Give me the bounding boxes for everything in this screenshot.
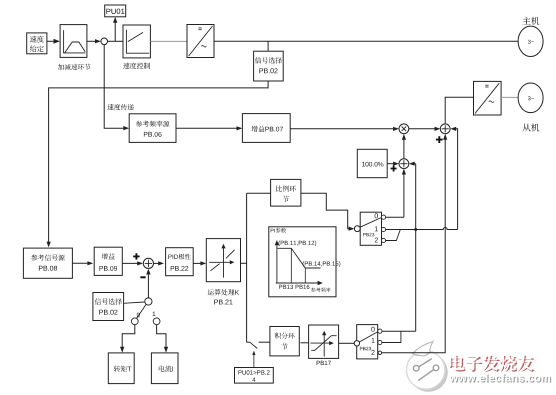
block PU01>PB.24 annotation	[235, 368, 274, 384]
wire upper selector pos2 join to pos1 net	[386, 230, 401, 241]
lower selector pivot circle	[354, 341, 359, 346]
label PB23	[363, 233, 374, 236]
wire setpoint to ramp block	[47, 40, 58, 42]
block 增益PB.07	[242, 114, 290, 143]
PID summing circle	[143, 258, 153, 268]
watermark www.elecfans.com	[451, 375, 552, 383]
inset graph box PI parameters	[269, 227, 336, 297]
wire bottom input into adder2 from upper selector output 0	[403, 170, 405, 217]
wire 速度传递 from junction down to PB.06	[104, 45, 127, 129]
watermark link icon	[409, 353, 448, 392]
label 从机	[523, 124, 531, 132]
block 速度控制 (speed control) with gain curve icon	[123, 25, 150, 58]
junction dot on net at y=229.5	[414, 228, 417, 231]
annotation arrow from PU01>PB.24 box	[253, 352, 255, 367]
label 运算处理K PB.21	[208, 289, 214, 295]
lower selector terminal circles 0 1 2	[378, 329, 382, 333]
main wire inverter1 to master motor	[214, 40, 518, 42]
wire upper selector pos1 net to risers (with hop over x=445.2)	[386, 228, 458, 230]
label 速度传递	[107, 104, 113, 110]
selector terminal circles 0 1 2	[381, 215, 385, 219]
wire 100.0% to adder 2	[387, 163, 397, 165]
wire terminal0 elbow down to 转矩T	[122, 325, 135, 351]
wire lower selector pos0 right and up riser x=415.7	[382, 330, 416, 332]
feedback selector pivot circle	[145, 298, 152, 305]
wire right input into adder2 from selector net	[410, 163, 415, 165]
wire PB.09 to PID summing circle	[122, 262, 141, 264]
multiplier circle X	[399, 124, 409, 134]
bold plus sign at adder bottom input	[436, 136, 443, 143]
wire PB.22 to PB.21	[193, 262, 204, 264]
adder circle (slave speed sum)	[440, 124, 450, 134]
inverter 1 (master drive) box with = / ~ symbol	[187, 25, 214, 58]
block 积分环节 (integral)	[270, 327, 299, 356]
block 运算处理 PB.21 variable-gain icon	[206, 239, 240, 282]
bold minus sign PID sum feedback	[140, 276, 145, 278]
wire 比例环节 staircase into upper selector pivot	[301, 193, 353, 228]
feedback wire PB.02 down, left, down to PB.08	[49, 81, 269, 246]
wire PB.08 to PB.09	[72, 262, 91, 264]
label (PB.14,PB.15)	[303, 261, 341, 267]
block PB17 integrator icon	[309, 325, 339, 358]
open contact on integral input (PU01>PB.24)	[247, 341, 250, 343]
graph x-axis	[276, 282, 321, 284]
block 比例环节 (proportional)	[271, 179, 301, 206]
wire 积分环节 to PB17	[301, 342, 309, 344]
feedback terminal circles 0 1	[131, 318, 138, 325]
riser to adder right input	[452, 129, 458, 230]
bold plus sign PID sum	[133, 253, 139, 259]
label PB13	[279, 285, 293, 289]
feedback selector arm to terminal 0	[136, 305, 146, 319]
block 参考频率源 PB.06	[129, 114, 176, 143]
inverter 2 (slave drive) box with = / ~ symbol	[474, 81, 502, 115]
label 主机	[523, 17, 531, 25]
summing junction circle (speed)	[101, 38, 108, 45]
graph drop line at PB16	[304, 268, 306, 283]
block 电流I (current)	[151, 353, 178, 384]
label 参考频率	[311, 288, 316, 293]
wire PB.21 output to P/I tee	[241, 262, 247, 264]
selector arm to position 0	[360, 217, 382, 227]
graph drop line at PB13	[290, 248, 292, 283]
label PB23 lower	[360, 347, 371, 350]
wire PB.07 to multiplier	[290, 128, 397, 130]
label PI参数	[271, 229, 275, 233]
block 参考信号源 PB.08	[23, 248, 72, 278]
adder circle 2 (trim sum)	[399, 159, 409, 169]
wire adder2 up into multiplier	[403, 135, 405, 158]
digits 0 1 2 lower	[371, 327, 374, 332]
wire PB.06 to PB.07	[176, 127, 241, 129]
block 信号选择 PB.02 (feedback select)	[93, 293, 124, 321]
vertical net wire x=415.7 down to lower selector output 0	[415, 164, 417, 332]
wire up to PU01 display	[114, 18, 116, 41]
block PU01	[105, 5, 126, 17]
wire terminal1 elbow down to 电流I	[157, 325, 166, 351]
node tap down to PB.02 signal select	[267, 41, 269, 51]
wire inverter 2 to slave motor	[501, 96, 518, 98]
wire junction to speed controller	[108, 40, 124, 42]
wire PID sum to PB.22	[154, 262, 163, 264]
graph curve	[277, 248, 320, 268]
selector switch PB23 (lower) box	[357, 325, 378, 359]
selector switch PB23 (upper) box	[360, 212, 381, 245]
wire lower selector pos1 join up to pos0 line	[382, 331, 401, 342]
wire multiplier to adder	[409, 128, 439, 130]
block PID极性 PB.22	[166, 248, 194, 276]
lower selector arm to position 0	[359, 332, 378, 342]
wire PB.02 to pivot	[124, 302, 145, 303]
block 100.0% constant	[357, 149, 387, 177]
label PB16	[296, 285, 310, 289]
wire lower selector pos2 right to riser x=445.2 up to adder bottom	[382, 135, 445, 352]
graph y-axis	[276, 243, 278, 283]
block 速度给定 (speed setpoint)	[27, 33, 47, 54]
block 转矩T (torque)	[108, 353, 134, 384]
watermark 电子发烧友 red text	[450, 356, 465, 372]
wire tee to 比例环节	[247, 192, 271, 194]
digits 0 1 2	[375, 213, 378, 218]
wire adder up and right to inverter 2	[445, 97, 473, 124]
motor 主机 (master) circle 3~	[518, 26, 543, 56]
wire PB17 to lower selector pivot	[339, 342, 355, 344]
wire upper selector pos0 to adder2 bottom net	[386, 216, 404, 218]
motor 从机 (slave) circle 3~	[518, 83, 543, 113]
block 信号选择 PB.02 (top feedback signal select)	[254, 51, 284, 81]
block 加减速环节 (accel/decel ramp) with ramp curve icon	[60, 25, 87, 58]
vertical tee wire to P branch and I branch	[246, 193, 248, 342]
label PB17	[317, 361, 331, 365]
label (PB.11,PB.12)	[279, 241, 317, 247]
bold plus sign at adder 2 left input	[391, 166, 397, 172]
wire speed control to inverter 1	[150, 40, 187, 42]
selector pivot circle	[354, 226, 360, 232]
wire PID feedback up into summing circle minus input	[147, 270, 149, 298]
digits 0 1 feedback	[137, 313, 140, 318]
wire ramp to summing junction	[87, 40, 99, 42]
block 增益 PB.09	[94, 247, 122, 275]
